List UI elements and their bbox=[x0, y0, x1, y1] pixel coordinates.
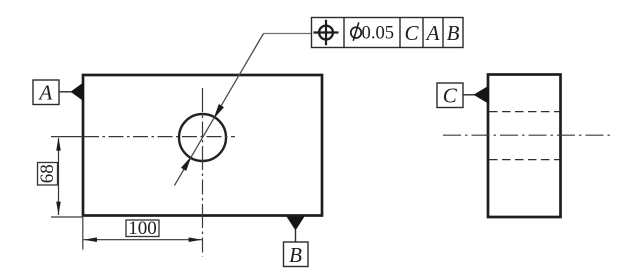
horizontal centerline of hole bbox=[51, 136, 235, 138]
svg-text:C: C bbox=[404, 21, 419, 45]
dimension 68 value box bbox=[37, 163, 58, 186]
hidden line lower (hole) bbox=[489, 159, 560, 161]
datum B symbol bbox=[284, 217, 309, 267]
leader line from feature control frame bbox=[174, 34, 311, 186]
dimension 100 value box bbox=[126, 218, 159, 239]
svg-text:A: A bbox=[37, 81, 52, 105]
datum reference C in frame bbox=[404, 21, 419, 45]
dimension 100 line with arrows bbox=[84, 237, 203, 242]
vertical centerline of hole bbox=[202, 88, 204, 257]
tolerance value 0.05 bbox=[362, 22, 395, 43]
datum C symbol bbox=[437, 83, 489, 108]
leader lower arrowhead at hole edge bbox=[182, 158, 191, 171]
svg-text:B: B bbox=[447, 21, 460, 45]
dimension 68 extension line bottom bbox=[51, 216, 83, 218]
svg-text:C: C bbox=[443, 84, 458, 108]
side view centerline bbox=[443, 134, 614, 136]
datum reference A in frame bbox=[425, 21, 440, 45]
hole circle bbox=[179, 114, 226, 161]
svg-text:0.05: 0.05 bbox=[362, 22, 395, 43]
feature control frame outer box bbox=[312, 18, 464, 48]
dimension 68 line with arrows bbox=[56, 137, 61, 215]
side view outline bbox=[488, 75, 561, 218]
leader upper arrowhead at hole edge bbox=[215, 105, 224, 118]
dimension 100 extension line left bbox=[82, 216, 84, 250]
svg-text:B: B bbox=[289, 243, 302, 267]
svg-text:A: A bbox=[425, 21, 440, 45]
main view plate outline bbox=[83, 75, 322, 216]
svg-text:100: 100 bbox=[128, 218, 157, 239]
phi symbol bbox=[351, 22, 361, 41]
datum reference B in frame bbox=[447, 21, 460, 45]
position tolerance symbol bbox=[314, 20, 339, 45]
svg-text:68: 68 bbox=[37, 164, 58, 183]
hidden line upper (hole) bbox=[489, 111, 560, 113]
datum A symbol bbox=[33, 80, 84, 105]
